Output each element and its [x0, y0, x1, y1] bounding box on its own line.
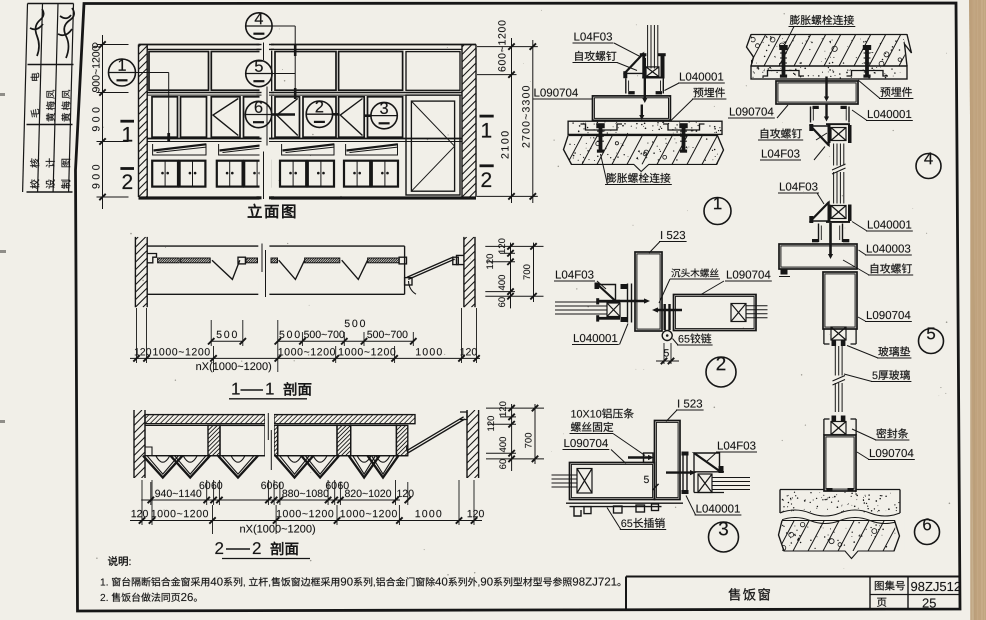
1-1 dim row top (500s): [211, 340, 243, 342]
detail 1: label self-tapping screw: [575, 51, 616, 61]
detail 2: label I523: [661, 231, 685, 239]
detail 3: label L04F03: [718, 441, 756, 449]
detail 2: frame member between sash and post: [627, 284, 629, 323]
elevation title: [248, 204, 295, 218]
detail 6: bottom frame box L090704: [824, 435, 856, 491]
detail 2: left sash glass: [555, 301, 607, 303]
detail 6: hatched concrete floor: [779, 521, 900, 559]
detail 2: circle number: [706, 357, 736, 387]
section mark 2-left: [120, 167, 134, 170]
left dimension chain: [102, 35, 104, 209]
detail 5: label L040003: [867, 244, 910, 252]
detail 6: label seal strip: [876, 428, 908, 438]
1-1 nX dim: [196, 362, 271, 372]
left margin signature table: [23, 4, 28, 193]
2-2 hatched piers: [208, 425, 220, 455]
title block text: atlas no value: [911, 582, 960, 591]
detail 5: label L040001: [868, 220, 911, 228]
elevation circled mark 1: [109, 59, 136, 86]
table row 2 printed names (rotated): [31, 73, 40, 118]
detail 5: small fixing mark: [781, 270, 788, 275]
detail 1: concrete sill band: [568, 121, 722, 134]
detail 1: expansion bolt right: [679, 123, 687, 128]
2-2 extension lines: [141, 480, 143, 525]
detail 6: circle number: [915, 520, 940, 545]
middle band panes: [152, 97, 178, 137]
detail 3: label I523: [678, 399, 702, 407]
detail 3: circle number: [709, 522, 739, 552]
right dimension chains: [511, 38, 513, 203]
title block dividers: [869, 577, 871, 610]
detail 5: label L090704: [867, 311, 911, 319]
detail 4: L040001 adapter: [810, 107, 812, 123]
detail 6: bottom sash with seals: [831, 422, 846, 435]
elevation band lines: [147, 92, 462, 94]
circled mark 4 with leader: [246, 13, 272, 39]
2-2 title: [215, 542, 223, 554]
counter band with sloped boards: [153, 144, 206, 156]
detail 5: label glass gasket: [878, 346, 910, 356]
circled mark 3 with leader: [371, 102, 397, 128]
detail 6: floor topping band: [780, 489, 824, 491]
detail 5: glazing pocket: [823, 329, 825, 344]
1-1 dim row main: [130, 357, 480, 359]
detail 1: label L090704: [534, 88, 578, 96]
detail 4: label L04F03: [762, 149, 800, 157]
detail 4: screw arrows: [825, 77, 827, 100]
elevation bottom edge: [139, 196, 477, 199]
detail 1: concrete hatched base: [564, 136, 724, 172]
door diagonals: [411, 101, 454, 146]
detail 5: upper sash of serving window: [828, 205, 831, 222]
scan edge strip: [969, 0, 986, 620]
detail 2: hinge: [664, 304, 666, 330]
elevation top edge lines: [139, 44, 477, 46]
1-1 open sash V 1: [212, 260, 240, 279]
detail 3: label L040001: [697, 504, 740, 512]
2-2 dim row B: [130, 520, 482, 522]
notes heading: [108, 556, 130, 566]
detail 3: right sash frame: [682, 452, 684, 495]
elevation break strip: [260, 42, 272, 201]
table row 3 printed labels (rotated): [30, 158, 39, 188]
detail 3: screw arrow through post: [666, 471, 693, 473]
detail 5: label self-tapping screw: [871, 263, 912, 273]
detail 4: label embedded part: [880, 87, 911, 97]
title block box: [626, 576, 959, 578]
2-2 serving window flaps (V shapes): [143, 456, 183, 478]
top band panes: [149, 52, 209, 91]
cabinet row: [152, 161, 178, 187]
detail 3: label long pin 65: [621, 518, 664, 528]
detail 2: 5mm dim: [663, 343, 665, 364]
circled mark 5 with leader: [246, 60, 272, 86]
section mark 1-left: [120, 120, 134, 123]
detail 2: left sash triangle: [598, 285, 616, 302]
table row 1 handwritten signatures: [30, 9, 44, 56]
detail 5: screw arrow into header: [829, 223, 832, 257]
note line 1: [101, 578, 108, 585]
chain end circle: [93, 43, 98, 48]
detail 4: label self-tapping screw: [761, 128, 802, 138]
casement open-direction symbol: [277, 99, 298, 136]
detail 2: serving window box L090704: [674, 295, 757, 331]
scattered scan specks: [96, 10, 950, 582]
detail 1: screw arrows: [644, 58, 646, 101]
2-2 break strip: [265, 412, 274, 478]
detail 4: concrete hatched slab: [747, 35, 912, 67]
detail 1: label L040001: [680, 72, 723, 80]
detail 3: sill bar with pins: [566, 502, 683, 504]
detail 2: label L090704: [727, 270, 771, 278]
detail 4: glazing lines: [833, 144, 835, 166]
detail 5: mullion box L090704: [823, 272, 857, 329]
detail 5: L040001 adapter under sash: [818, 224, 820, 243]
detail 3: right sash glazing: [698, 474, 712, 493]
1-1 window frames in plan: [158, 258, 180, 263]
detail 4: embedded channel plates: [763, 71, 805, 77]
section mark 1-right: [480, 115, 494, 118]
circled mark 2 with leader: [306, 101, 332, 127]
1-1 counter outline: [147, 245, 404, 247]
circled mark 6 with leader: [245, 101, 271, 127]
2-2 open door leaf: [408, 419, 465, 453]
detail 4: label L090704: [730, 107, 774, 115]
2-2 dim row A: [141, 499, 400, 501]
detail 4: label expansion bolt connection: [790, 15, 854, 25]
detail 2: label L040001: [574, 334, 617, 342]
1-1 left jamb block: [147, 254, 156, 263]
detail 4: circle number: [916, 154, 941, 179]
2-2 boxes and piers: [145, 425, 208, 455]
break dash marks: [263, 43, 265, 61]
detail 1: sash profile L04F03: [647, 25, 649, 69]
1-1 extension lines: [136, 308, 138, 363]
detail 1: L090704 box: [593, 96, 671, 120]
title block text: page label: [877, 598, 886, 607]
detail 3: serving window box: [570, 463, 655, 500]
detail 4: L090704 box: [776, 81, 858, 104]
detail 5: glass lines: [834, 346, 836, 376]
2-2 lintel hatched band: [145, 415, 265, 424]
1-1 break gap: [271, 258, 278, 263]
1-1 title: [232, 383, 239, 395]
detail 3: right sash triangle: [694, 453, 720, 471]
left margin marks: [0, 93, 5, 96]
detail 3: label L090704: [564, 439, 608, 447]
detail 2: label countersunk wood screw: [671, 268, 718, 277]
detail 1: L040001 adapter: [625, 78, 627, 93]
casement open-direction symbol: [213, 99, 238, 136]
detail 6: wavy break line: [780, 510, 900, 516]
detail 3: pressure strip and screw arrow: [644, 453, 654, 463]
detail 6: label L090704: [870, 449, 914, 457]
door section: [406, 52, 460, 91]
2-2 nX dim: [240, 525, 315, 535]
detail 1: expansion bolt left: [596, 123, 604, 128]
detail 1: embedded plates (yumaijian): [581, 124, 623, 130]
leader from mark 1: [136, 72, 169, 74]
1-1 open sash V 2: [279, 260, 305, 279]
1-1 open door leaf: [408, 259, 454, 279]
title block text: drawing name: [728, 588, 769, 601]
detail 3: post I523: [655, 421, 681, 500]
detail 1: label L04F03: [574, 32, 612, 40]
detail 3: labels pressure strip: [571, 408, 633, 418]
2-2 right vertical dims: [511, 404, 513, 471]
detail 4: expansion bolts: [779, 45, 787, 50]
detail 2: left sash profile: [607, 303, 620, 317]
detail 3: 5mm gap dim: [644, 476, 649, 483]
detail 5: glass gaskets: [832, 341, 837, 347]
title block text: atlas no label: [875, 581, 905, 591]
note line 2: [101, 594, 108, 601]
detail 2: door post I523: [635, 252, 662, 331]
detail 4: sash profile: [828, 125, 831, 143]
section mark 2-right: [480, 164, 494, 167]
detail 5: label 5mm glass: [872, 370, 909, 380]
detail 5: label L04F03 upper: [780, 182, 818, 190]
detail 2: label L04F03: [556, 270, 594, 278]
detail 5: L040003 header box: [779, 244, 857, 269]
detail 1: circle number: [704, 198, 731, 225]
title block text: page value: [923, 598, 936, 607]
1-1 right vertical dims: [510, 243, 512, 309]
detail 4: label L040001: [868, 110, 911, 118]
detail 1: label embedded part: [693, 87, 724, 97]
1-1 break strip: [258, 243, 269, 298]
detail 1: label expansion bolt connection: [606, 173, 670, 183]
detail 4: corner bracket triangle: [811, 126, 830, 146]
1-1 right jamb block: [457, 255, 464, 264]
detail 4: mortar band: [751, 66, 907, 79]
1-1 open sash V 3: [342, 260, 368, 279]
detail 1: corner bracket triangle: [625, 53, 644, 73]
detail 2: screw arrows: [616, 300, 647, 303]
detail 5: circle number: [919, 329, 944, 354]
casement open-direction symbol: [340, 99, 362, 136]
detail 2: label hinge 65: [679, 333, 712, 343]
detail 5: corner bracket triangle: [811, 202, 830, 221]
